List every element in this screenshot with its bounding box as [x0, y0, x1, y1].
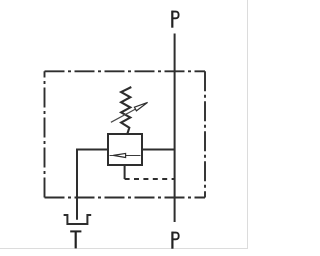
enclosure box bottom edge (dash-dot)	[45, 197, 206, 199]
enclosure box right edge (dash-dot)	[204, 71, 206, 197]
enclosure box top edge (dash-dot)	[45, 70, 206, 72]
adjustment arrow tail	[111, 109, 136, 122]
label T (tank port)	[70, 231, 81, 248]
adjustment arrow open head	[134, 102, 147, 110]
label P (bottom port)	[172, 232, 179, 249]
photo frame right edge	[247, 0, 249, 249]
wire: valve bottom pilot stub	[124, 165, 126, 179]
spring	[121, 87, 131, 134]
valve internal flow line	[110, 155, 141, 157]
valve body V1	[108, 134, 142, 165]
tank symbol T	[64, 215, 92, 224]
P pressure line (vertical)	[174, 34, 176, 223]
pilot line (dashed) to P line	[125, 178, 175, 180]
wire: valve outlet to P line	[142, 149, 175, 151]
label P (top port)	[172, 11, 179, 28]
enclosure box left edge (dash-dot)	[44, 71, 46, 197]
valve internal arrow (open head, points left)	[113, 153, 125, 157]
photo frame bottom edge	[0, 248, 248, 250]
wire: valve inlet to tank drop	[77, 150, 108, 220]
